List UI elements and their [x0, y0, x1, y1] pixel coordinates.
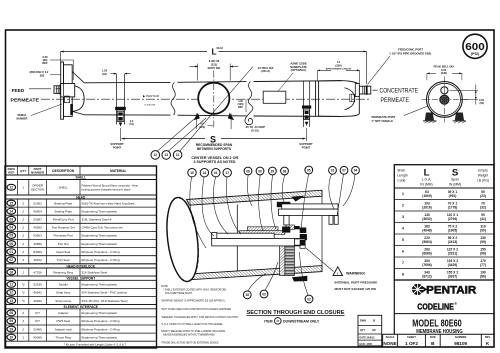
svg-text:(215): (215): [211, 62, 217, 66]
svg-text:KIT: KIT: [35, 311, 40, 315]
svg-text:40012: 40012: [33, 258, 42, 262]
port nut on left head: [61, 84, 75, 97]
svg-text:PWT Seal: PWT Seal: [56, 319, 70, 323]
svg-text:45069: 45069: [33, 335, 42, 339]
svg-text:3: 3: [402, 215, 404, 219]
svg-text:09: 09: [258, 169, 262, 173]
svg-text:06: 06: [10, 242, 14, 246]
spec table frame: [394, 165, 494, 280]
end view centerlines: [422, 98, 469, 100]
svg-text:69.12: 69.12: [217, 46, 224, 50]
head seal black arrow: [292, 196, 305, 202]
svg-text:12: 12: [10, 291, 14, 295]
svg-text:1" NPT FEMALE: 1" NPT FEMALE: [372, 119, 394, 123]
leader 29: [271, 175, 276, 229]
leader 17: [226, 177, 241, 234]
parts table frame: [5, 166, 157, 348]
hidden permeate port marks: [350, 94, 355, 102]
svg-text:▶ PENTAIR: ▶ PENTAIR: [143, 94, 160, 98]
svg-text:ELEMENT INTERFACE: ELEMENT INTERFACE: [64, 305, 98, 309]
svg-text:4: 4: [402, 227, 404, 231]
shell cut end face: [321, 196, 323, 265]
svg-text:(3937): (3937): [448, 275, 458, 279]
svg-text:8: 8: [402, 273, 404, 277]
svg-text:Bearing Plate: Bearing Plate: [54, 201, 72, 205]
leader 10: [329, 174, 334, 209]
svg-text:SHEET: SHEET: [407, 335, 416, 339]
retainer hatched block: [286, 225, 295, 229]
parts section bar HEAD: [5, 194, 157, 196]
parts row Feed/Conc Port: [5, 222, 157, 224]
circled 17: [223, 169, 231, 177]
svg-text:HEAD: HEAD: [76, 195, 86, 199]
end view right foot: [455, 113, 464, 121]
svg-text:05: 05: [10, 234, 14, 238]
svg-text:NUMBER: NUMBER: [31, 170, 45, 174]
svg-text:*GENERAL TOLERANCES APPLY, FOR: *GENERAL TOLERANCES APPLY, FOR DETAILS C…: [161, 316, 239, 319]
svg-text:CONCENTRATE: CONCENTRATE: [380, 88, 419, 95]
svg-text:NUMBER: NUMBER: [455, 335, 467, 339]
circled 01: [212, 169, 220, 177]
svg-text:Ethylene Propylene - O Ring: Ethylene Propylene - O Ring: [82, 327, 120, 331]
svg-text:Adapter seal: Adapter seal: [55, 327, 72, 331]
end view left foot: [425, 113, 434, 121]
svg-text:Filament Wound Epoxy/Glass com: Filament Wound Epoxy/Glass composite - H…: [82, 184, 139, 188]
circled 09: [256, 167, 264, 175]
svg-text:(23): (23): [480, 194, 486, 198]
svg-text:7: 7: [402, 261, 404, 265]
svg-text:Retaining Ring: Retaining Ring: [53, 270, 73, 274]
svg-text:MODEL 80E60: MODEL 80E60: [412, 319, 462, 330]
svg-text:VESSEL SUPPORT: VESSEL SUPPORT: [66, 277, 95, 281]
parts row Strap Assy: [5, 296, 157, 298]
svg-text:Saddle: Saddle: [59, 283, 69, 287]
svg-text:Sealing Plate: Sealing Plate: [54, 209, 72, 213]
title block model row: [394, 313, 494, 315]
leader 07: [337, 174, 344, 216]
spec row 5: [394, 245, 494, 247]
svg-text:(51): (51): [129, 123, 134, 126]
svg-text:*4: *4: [22, 299, 25, 303]
leader 14: [202, 177, 214, 236]
svg-text:DESCRIPTION: DESCRIPTION: [52, 169, 74, 173]
svg-text:45942: 45942: [33, 291, 42, 295]
svg-text:13: 13: [164, 153, 168, 157]
svg-text:(6680): (6680): [422, 252, 432, 256]
svg-text:QTY: QTY: [360, 329, 365, 332]
svg-text:Port Nut: Port Nut: [58, 242, 69, 246]
svg-text:REF: REF: [8, 170, 14, 174]
circled 03: [260, 290, 268, 298]
black wedge at bottom wall: [292, 276, 307, 282]
svg-text:(77): (77): [480, 263, 486, 267]
spec row 2: [394, 210, 494, 212]
svg-text:29: 29: [10, 327, 14, 331]
leader 04: [343, 174, 355, 206]
parts row Head Seal: [5, 255, 157, 257]
svg-text:02: 02: [307, 297, 311, 301]
600 PSI stamp: [463, 34, 487, 58]
svg-text:POINT: POINT: [302, 145, 311, 149]
svg-text:NOTE:: NOTE:: [161, 285, 169, 288]
svg-text:CODELINE: CODELINE: [144, 104, 156, 106]
svg-text:96504: 96504: [33, 209, 42, 213]
svg-text:01: 01: [10, 250, 14, 254]
svg-text:2: 2: [402, 204, 404, 208]
svg-text:L.O.A.: L.O.A.: [422, 178, 432, 182]
svg-text:6: 6: [402, 250, 404, 254]
svg-text:Ethylene Propylene - O Ring: Ethylene Propylene - O Ring: [82, 250, 120, 254]
circled 07: [340, 166, 348, 174]
spec row 3: [394, 222, 494, 224]
svg-text:* Kit part. Furnished with Len: * Kit part. Furnished with Length Codes …: [64, 342, 127, 346]
svg-text:04: 04: [10, 226, 14, 230]
svg-text:Port Retainer Set: Port Retainer Set: [52, 226, 75, 230]
svg-text:DOWNSTREAM ONLY: DOWNSTREAM ONLY: [283, 319, 320, 323]
parts row SHELL: [5, 194, 157, 196]
svg-text:17: 17: [225, 171, 229, 175]
svg-text:1 OF2: 1 OF2: [405, 341, 418, 346]
spec row 6: [394, 256, 494, 258]
section shell left end ellipse: [163, 196, 203, 284]
svg-text:(201.8): (201.8): [261, 69, 270, 73]
svg-text:(991): (991): [449, 194, 457, 198]
shell section circle: [198, 83, 229, 114]
svg-text:5: 5: [402, 238, 404, 242]
svg-text:REF: REF: [42, 61, 48, 65]
bearing plate thin plate: [212, 233, 275, 238]
svg-text:POLYURETHANE PAINT: POLYURETHANE PAINT: [165, 292, 192, 295]
svg-text:IN (MM): IN (MM): [449, 183, 461, 187]
parts row Saddle: [5, 287, 157, 289]
svg-text:(32): (32): [480, 206, 486, 210]
svg-text:(3632): (3632): [422, 217, 432, 221]
warning leader: [306, 248, 334, 272]
parts row Port Nut: [5, 247, 157, 249]
svg-text:DWN: DWN: [360, 320, 366, 323]
svg-text:Weight: Weight: [478, 174, 489, 178]
svg-text:MUST NOT EXCEED 125 PSI: MUST NOT EXCEED 125 PSI: [335, 287, 377, 291]
parts row Adapter: [5, 316, 157, 318]
svg-text:REV: REV: [485, 335, 491, 339]
svg-text:HEADS/ASSEMBLIES WITHOUT MEMBR: HEADS/ASSEMBLIES WITHOUT MEMBRANES: [163, 334, 215, 337]
circled 06: [244, 167, 252, 175]
circled 02: [305, 295, 313, 303]
right head bell: [315, 81, 317, 116]
svg-text:*L.O.A. 63/360 TO CH SMALL LEN: *L.O.A. 63/360 TO CH SMALL LENGTH OF THE…: [161, 323, 223, 326]
parts row PWT Seal: [5, 324, 157, 326]
strap clamp arrows: [193, 113, 199, 121]
parts row Port Seal: [5, 263, 157, 265]
right support strap: [303, 81, 305, 127]
svg-text:02: 02: [10, 258, 14, 262]
svg-text:40590: 40590: [33, 226, 42, 230]
svg-text:FEED: FEED: [12, 88, 25, 93]
parts row Adapter seal: [5, 332, 157, 334]
svg-text:(4648): (4648): [422, 229, 432, 233]
svg-text:Engineering Thermoplastic: Engineering Thermoplastic: [82, 335, 118, 339]
leader 05: [301, 174, 309, 231]
black port block: [300, 228, 307, 234]
svg-text:6061-T6 Aluminum alloy Hard An: 6061-T6 Aluminum alloy Hard Anodized: [82, 201, 135, 205]
svg-text:17: 17: [276, 319, 280, 323]
svg-text:Strap screw: Strap screw: [55, 299, 72, 303]
parts row Bearing Plate: [5, 206, 157, 208]
svg-text:Ethylene Propylene - O Ring: Ethylene Propylene - O Ring: [82, 319, 120, 323]
svg-text:Adapter: Adapter: [58, 311, 69, 315]
break squiggle left: [171, 82, 175, 115]
svg-text:Feed/Conc Port: Feed/Conc Port: [53, 217, 74, 221]
svg-text:01: 01: [214, 171, 218, 175]
feed/conc port left (grooved): [54, 86, 67, 94]
svg-text:(OPTIONAL): (OPTIONAL): [291, 68, 307, 72]
svg-text:BODY DIA: BODY DIA: [208, 66, 221, 70]
svg-text:16: 16: [246, 293, 250, 297]
parts row Permeate Port: [5, 239, 157, 241]
title block left border: [393, 280, 395, 334]
end view top port circle: [441, 87, 448, 94]
concentrate port stub: [359, 86, 371, 94]
svg-text:14: 14: [203, 171, 207, 175]
circled item 11: [173, 151, 182, 160]
bearing plate top bars: [282, 204, 338, 209]
end view center permeate port: [440, 95, 449, 104]
parts section bar ELEMENT INTERFACE: [5, 304, 157, 306]
wide plate: [212, 239, 300, 246]
svg-text:316 Stainless Steel: 316 Stainless Steel: [82, 270, 108, 274]
svg-text:84000: 84000: [33, 250, 42, 254]
svg-text:Engineering Thermoplastic: Engineering Thermoplastic: [82, 209, 118, 213]
threaded stud: [280, 246, 285, 276]
svg-text:(2921): (2921): [448, 252, 458, 256]
svg-text:SECTION: SECTION: [31, 187, 44, 191]
drawn/date box: [358, 315, 382, 346]
svg-text:316L Stainless Steel #: 316L Stainless Steel #: [82, 217, 112, 221]
circled 16: [243, 291, 251, 299]
svg-text:PERMEATE: PERMEATE: [381, 97, 410, 104]
sealing plate hatch strip: [240, 231, 285, 235]
svg-text:DATE 3/06/12: DATE 3/06/12: [360, 336, 376, 339]
svg-text:Head Seal: Head Seal: [56, 250, 70, 254]
end view outer shell circles: [427, 82, 463, 118]
circled 04: [352, 166, 360, 174]
body dia dimension: [197, 64, 199, 81]
svg-text:(356): (356): [335, 64, 341, 68]
leader from 12 to saddle: [157, 120, 193, 152]
svg-text:10: 10: [331, 169, 335, 173]
parts row Retaining Ring: [5, 275, 157, 277]
svg-text:(41): (41): [480, 217, 486, 221]
svg-text:Shell: Shell: [397, 169, 405, 173]
spec row 1: [394, 199, 494, 201]
svg-text:14: 14: [10, 209, 14, 213]
spec row 7: [394, 268, 494, 270]
svg-text:LB (KG): LB (KG): [477, 179, 489, 183]
svg-text:93563: 93563: [33, 234, 42, 238]
parts section bar VESSEL SUPPORT: [5, 275, 157, 277]
svg-text:09: 09: [10, 319, 14, 323]
svg-text:SHELL: SHELL: [58, 185, 68, 189]
svg-text:47336: 47336: [33, 270, 42, 274]
svg-text:PERMEATE: PERMEATE: [11, 97, 40, 102]
break squiggle right: [245, 82, 253, 125]
title block bottom row: [383, 333, 494, 335]
parts section bar SHELL: [5, 174, 157, 176]
svg-text:IN (MM): IN (MM): [420, 183, 432, 187]
section shell top wall: [187, 190, 323, 205]
dimension L overall length: [61, 51, 207, 53]
parts section bar HEAD INTERLOCK: [5, 263, 157, 265]
nameplate rect: [263, 91, 286, 103]
leader 08: [282, 175, 284, 203]
svg-text:Span: Span: [451, 178, 459, 182]
leader 16: [248, 274, 266, 291]
svg-text:(1600): (1600): [422, 194, 432, 198]
svg-text:Strap Assy: Strap Assy: [56, 291, 71, 295]
svg-text:(1905): (1905): [448, 229, 458, 233]
svg-text:SECTION THROUGH END CLOSURE: SECTION THROUGH END CLOSURE: [247, 310, 345, 316]
svg-text:51952: 51952: [33, 201, 42, 205]
svg-text:locking grooves integrally wou: locking grooves integrally wound in plac…: [82, 187, 131, 191]
svg-text:*SHIPPING WEIGHT IS APPROXIMAT: *SHIPPING WEIGHT IS APPROXIMATE (55 LBS …: [161, 300, 226, 303]
svg-text:16: 16: [10, 270, 14, 274]
leader 09: [259, 175, 263, 231]
leader 01: [213, 177, 228, 234]
svg-text:06: 06: [246, 169, 250, 173]
circled 08: [281, 167, 289, 175]
leader from 11 to dia label: [180, 67, 253, 152]
dim 3.50: [450, 89, 479, 91]
svg-text:CF8M Cast 316, Two piece set: CF8M Cast 316, Two piece set: [82, 226, 123, 230]
svg-text:(PSI): (PSI): [471, 52, 479, 56]
svg-text:*2: *2: [22, 291, 25, 295]
svg-text:1: 1: [402, 192, 404, 196]
svg-text:REF: REF: [238, 106, 243, 109]
svg-text:ITEM: ITEM: [264, 319, 272, 323]
svg-text:*NOT TO BE USED FOR CONSTRUCTI: *NOT TO BE USED FOR CONSTRUCTION UNLESS …: [161, 308, 231, 311]
svg-text:(2794): (2794): [448, 217, 458, 221]
left support strap: [116, 74, 118, 125]
svg-text:Empty: Empty: [478, 169, 488, 173]
svg-text:29: 29: [271, 169, 275, 173]
Pentair logo icon: [411, 283, 427, 295]
svg-text:(7696): (7696): [422, 263, 432, 267]
svg-text:NUMBER: NUMBER: [17, 117, 28, 120]
svg-text:Length: Length: [397, 174, 407, 178]
circled 14: [200, 169, 208, 177]
svg-text:CODELINE: CODELINE: [417, 302, 454, 311]
svg-text:08: 08: [283, 169, 287, 173]
svg-text:05: 05: [307, 168, 311, 172]
svg-text:Engineering Thermoplastic: Engineering Thermoplastic: [82, 283, 118, 287]
svg-text:(2413): (2413): [448, 240, 458, 244]
svg-text:MATERIAL: MATERIAL: [110, 169, 126, 173]
svg-text:®: ®: [454, 302, 457, 306]
svg-text:10: 10: [10, 335, 14, 339]
svg-text:(2616): (2616): [422, 206, 432, 210]
svg-text:SCALE: SCALE: [386, 335, 395, 339]
leader 06: [247, 175, 252, 206]
svg-text:40586: 40586: [33, 242, 42, 246]
svg-text:Thrust Ring: Thrust Ring: [55, 335, 71, 339]
svg-text:11: 11: [10, 283, 14, 287]
sealing plate hatch upper: [247, 227, 278, 232]
head seal square black: [282, 227, 290, 233]
svg-text:INTERNAL PORT PRESSURE: INTERNAL PORT PRESSURE: [335, 281, 378, 285]
svg-text:03: 03: [10, 217, 14, 221]
svg-text:(68): (68): [480, 252, 486, 256]
svg-text:08: 08: [10, 311, 14, 315]
svg-text:!: !: [337, 271, 338, 276]
leader 02: [300, 252, 309, 295]
svg-text:Ethylene Propylene - O Ring: Ethylene Propylene - O Ring: [82, 258, 120, 262]
svg-text:03: 03: [262, 292, 266, 296]
circled 10: [329, 166, 337, 174]
svg-text:HP: HP: [372, 329, 376, 332]
svg-text:13: 13: [10, 299, 14, 303]
vessel body outline: [84, 81, 170, 83]
svg-text:15: 15: [190, 171, 194, 175]
retainer legs: [284, 216, 289, 226]
circled 29: [269, 167, 277, 175]
parts row Strap screw: [5, 304, 157, 306]
S dimension span: [122, 138, 206, 140]
svg-text:(86): (86): [480, 275, 486, 279]
parts row Sealing Plate: [5, 214, 157, 216]
svg-text:(1778): (1778): [448, 206, 458, 210]
svg-text:NONE: NONE: [383, 341, 396, 346]
leader 03: [265, 262, 278, 290]
svg-text:46292: 46292: [33, 299, 42, 303]
svg-text:93587: 93587: [33, 217, 42, 221]
svg-text:Engineering Thermoplastic: Engineering Thermoplastic: [82, 242, 118, 246]
svg-text:*TRADE DIAL ACTIVE HEAT ON EXT: *TRADE DIAL ACTIVE HEAT ON EXTERNAL EDGE…: [161, 342, 219, 345]
svg-text:Engineering Thermoplastic: Engineering Thermoplastic: [82, 311, 118, 315]
svg-text:(8712): (8712): [422, 275, 432, 279]
centerline: [41, 98, 370, 100]
leader 15: [190, 177, 206, 248]
svg-text:52199: 52199: [33, 283, 42, 287]
svg-text:304 Stainless Steel - PVC cush: 304 Stainless Steel - PVC cushion: [82, 291, 128, 295]
svg-text:(248): (248): [441, 71, 447, 75]
svg-text:BETWEEN SUPPORTS: BETWEEN SUPPORTS: [197, 147, 232, 151]
parts row Thrust Ring: [5, 340, 157, 342]
svg-text:HEAD INTERLOCK: HEAD INTERLOCK: [66, 264, 95, 268]
svg-text:SHELL: SHELL: [76, 176, 87, 180]
svg-text:(50): (50): [480, 229, 486, 233]
svg-text:IS: IS: [373, 320, 376, 323]
bearing plate left face: [236, 205, 238, 272]
svg-text:Port Seal: Port Seal: [57, 258, 70, 262]
svg-text:KIT: KIT: [35, 319, 40, 323]
svg-text:ECN : 2565: ECN : 2565: [360, 343, 373, 346]
left head end closure: [61, 62, 64, 119]
leader from 13 to strap: [168, 118, 206, 151]
circled item 12: [151, 151, 160, 160]
svg-text:(56): (56): [40, 74, 45, 78]
parts table header row: [5, 174, 157, 176]
warning triangle: [333, 267, 343, 276]
svg-text:Code: Code: [397, 179, 405, 183]
svg-text:04: 04: [354, 169, 358, 173]
svg-text:(6-10): (6-10): [251, 128, 258, 132]
svg-text:(3429): (3429): [448, 263, 458, 267]
svg-text:12: 12: [154, 153, 158, 157]
thrust ring step: [294, 239, 305, 245]
svg-text:(REF.ONLY) 2.2: (REF.ONLY) 2.2: [30, 70, 49, 74]
svg-text:PENTAIR: PENTAIR: [426, 285, 476, 297]
svg-text:11: 11: [176, 153, 180, 157]
